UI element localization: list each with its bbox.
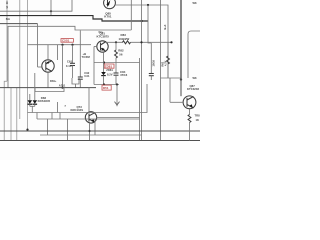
resistor R82 vertical x=116 (115, 42, 118, 73)
wire vertical x=62.5 (62, 45, 64, 88)
node junction (117,84.5) (116, 83, 118, 85)
component U box (72, 78, 79, 84)
svg-text:KT01: KT01 (104, 15, 112, 19)
wire vertical x=16.8 lower (16, 88, 18, 141)
wire vertical x=51 (50, 0, 52, 16)
wire U box stub (75, 84, 77, 88)
svg-text:KRC104S: KRC104S (71, 108, 84, 112)
wire stub x=47.5 lower (47, 119, 49, 135)
svg-text:TR8: TR8 (195, 114, 201, 118)
node junction (141.5,22) (141, 20, 143, 22)
wire stub x=60 (59, 113, 61, 120)
svg-text:D51: D51 (103, 86, 109, 90)
wire Q87 base y=102 (170, 101, 183, 103)
wire vertical x=57.5 lower (57, 102, 59, 113)
node junction (62.5,87.6) (61, 87, 63, 89)
wire vertical x=94 (93, 47, 95, 85)
wire Q73 collector up x=89 (88, 88, 90, 112)
wire horizontal bus y=135 (40, 134, 142, 136)
node junction (62.5,44.7) (61, 44, 63, 46)
ground arrow under x=117 (115, 85, 120, 107)
svg-text:10/16: 10/16 (152, 59, 156, 66)
wire horizontal y=62.5 (94, 62, 140, 64)
shield box bottom y=91.5 (35, 88, 64, 92)
svg-text:W8: W8 (193, 76, 197, 80)
svg-text:W8: W8 (193, 1, 197, 5)
node junction (181,79.5) (180, 78, 182, 80)
resistor TH81 below Q87 (188, 109, 191, 141)
svg-text:0.1C: 0.1C (66, 64, 72, 68)
wire horizontal bus y=131 (0, 130, 200, 132)
wire vertical x=182 collector (180, 78, 182, 96)
wire horizontal y=44.7 (28, 44, 92, 46)
wire vertical left bus x=4 (4, 81, 7, 141)
transistor Q87 (183, 96, 196, 109)
svg-text:47/16: 47/16 (120, 73, 128, 77)
connector box top right (188, 31, 200, 78)
wire vertical x=37.5 base feed (37, 24, 39, 67)
capacitor C91 (70, 45, 75, 78)
node junction (72.5,44.7) (71, 44, 73, 46)
node junction (171.5,42.3) (170, 41, 172, 43)
wire Q71 base y=67 (38, 66, 42, 68)
svg-text:ZD81: ZD81 (106, 68, 113, 72)
red box callout 2 (102, 85, 111, 90)
node junction (28,129.5) (26, 129, 28, 131)
resistor R62 on x=168 (167, 42, 170, 78)
svg-text:KTC3203: KTC3203 (187, 87, 199, 91)
svg-text:56: 56 (119, 52, 123, 56)
node junction (104,84.5) (103, 83, 105, 85)
wire stub x=67.5 lower (67, 119, 69, 141)
red box callout D81 (104, 64, 114, 68)
wire stub x=95 lower (94, 119, 96, 135)
wire vertical x=148 (147, 5, 149, 42)
svg-text:ZD81: ZD81 (105, 65, 113, 69)
capacitor C92 on long vertical x=80.3 (78, 31, 83, 88)
wire Q81 base from x=94 (94, 46, 97, 48)
node junction (89.5,131) (88, 130, 90, 132)
svg-text:A701: A701 (59, 83, 66, 87)
wire vertical x=141.5 (141, 0, 143, 141)
wire horizontal y=87.6 A701 line (0, 87, 96, 89)
wire vertical x=7 with connector glyphs (6, 0, 8, 81)
transistor Q71 mid-left (42, 60, 54, 72)
node junction (116,42.3) (115, 41, 117, 43)
svg-text:9: 9 (6, 5, 8, 9)
wire horizontal y=26.3 with corner at x=8 (8, 26, 131, 87)
wire horizontal y=112.5 (28, 84, 148, 113)
wire horizontal y=119 (37, 118, 140, 120)
svg-text:1K: 1K (196, 118, 199, 122)
svg-text:8: 8 (6, 1, 8, 5)
svg-text:C91: C91 (67, 59, 73, 63)
wire vertical x=161 (160, 0, 162, 141)
transistor Q85 top (104, 0, 116, 9)
wire vertical x=181 right thick (180, 0, 182, 96)
transistor Q81 (97, 41, 108, 52)
wire Q71 emitter down (47, 72, 49, 87)
resistor R83 line y=42.3 (106, 41, 172, 44)
wire vertical x=170 (169, 78, 171, 102)
svg-text:KTC3875: KTC3875 (97, 34, 110, 38)
wire horizontal y=84.5 (94, 84, 119, 86)
wire vertical x=57.5 (57, 45, 59, 60)
svg-text:0.01: 0.01 (84, 74, 90, 78)
wire vertical x=27.5 (27, 0, 29, 130)
capacitor C84 on x=116 (114, 73, 119, 85)
wire vertical x=12 lower (10, 88, 12, 141)
node junction (141.5,42.3) (140, 41, 142, 43)
wire Q85 collector y=5 to x=168 (115, 5, 168, 78)
transistor Q73 (85, 112, 96, 123)
wire Q71 collector up (47, 45, 49, 60)
wire horizontal y=78 right (161, 77, 182, 79)
wire horizontal bus y=140.5 (0, 140, 200, 142)
wire vertical x=139.5 (139, 58, 141, 141)
wire horizontal y=15.6 stepped net (0, 16, 148, 21)
wire vertical x=18.5 (19, 0, 21, 119)
wire stub x=52 (51, 113, 53, 120)
wire horizontal y=11.2 net (0, 0, 72, 11)
wire horizontal y=23.6 (0, 23, 38, 25)
node junction (51,11.2) (50, 10, 52, 12)
capacitor C64 vertical x=151.5 (148, 42, 154, 80)
node junction (148,5) (147, 4, 149, 6)
svg-text:TU/FM: TU/FM (82, 55, 91, 59)
red box callout C501 (61, 39, 73, 43)
svg-text:R62: R62 (161, 61, 165, 66)
svg-text:D81+: D81+ (50, 79, 57, 83)
wire stub x=37 (36, 113, 38, 120)
zener diode ZD81 (101, 63, 106, 85)
dual diode D82 (28, 73, 38, 113)
svg-text:C501: C501 (62, 39, 70, 43)
svg-text:8.2V: 8.2V (107, 73, 113, 77)
wire Q73 bottom down (89, 123, 91, 141)
svg-text:KDS1845: KDS1845 (38, 99, 51, 103)
svg-text:10Ω/2W: 10Ω/2W (119, 37, 130, 41)
wire vertical x=132 (130, 0, 132, 30)
svg-text:B+3: B+3 (163, 24, 167, 29)
wire Q81 emitter down (103, 52, 105, 62)
node junction (104,62.5) (103, 61, 105, 63)
wire Q73 emitter right y=117.5 (97, 117, 140, 119)
